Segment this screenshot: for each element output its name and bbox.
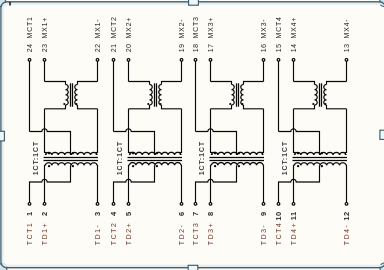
wire T1 secondary centre tap over hop to pin 1 TCT1 (30, 165, 71, 202)
svg-text:MCT4: MCT4 (276, 16, 283, 38)
svg-text:TD4+: TD4+ (291, 222, 298, 245)
transformer T2 secondary polarity dots (132, 165, 158, 167)
choke CM4 right winding polarity dot (324, 103, 326, 105)
label pin 7 TCT3 (191, 211, 200, 245)
svg-text:14: 14 (291, 44, 298, 53)
pin 2 TD1+ (bottom) (43, 203, 46, 206)
transformer T1 core (44, 158, 99, 161)
svg-text:8: 8 (206, 211, 215, 216)
transformer T4 core (293, 158, 348, 161)
svg-text:23: 23 (42, 44, 49, 53)
svg-text:MX2+: MX2+ (126, 17, 133, 39)
common-mode choke CM2 right winding (from MX2-) (159, 82, 182, 109)
svg-text:13: 13 (344, 44, 351, 53)
svg-text:7: 7 (191, 211, 200, 216)
svg-text:MX1-: MX1- (95, 19, 102, 39)
selection handle bottom edge (188, 265, 198, 270)
svg-text:19: 19 (179, 44, 186, 53)
svg-text:1CT:1CT: 1CT:1CT (33, 141, 40, 175)
transformer T3 core (210, 158, 265, 161)
wire choke CM3 right to transformer T3 primary right (262, 109, 263, 155)
wire T1 secondary right to pin 3 TD1- (96, 165, 99, 202)
pin 20 MX2+ (top) (127, 59, 130, 82)
wire T4 secondary centre tap over hop to pin 10 TCT4 (279, 165, 320, 202)
pin 12 TD4- (bottom) (345, 203, 348, 206)
svg-text:TD3-: TD3- (261, 224, 268, 246)
common-mode choke CM2 left winding (from MX2+) (129, 82, 153, 109)
transformer T1 secondary polarity dots (48, 165, 74, 167)
transformer T1 secondary winding (1CT:1CT bottom) (45, 163, 97, 166)
pin 3 TD1- (bottom) (96, 203, 99, 206)
svg-text:TD1-: TD1- (95, 224, 102, 246)
svg-text:TCT1: TCT1 (27, 222, 34, 246)
wire T3 secondary right to pin 9 TD3- (262, 165, 265, 202)
svg-text:1CT:1CT: 1CT:1CT (199, 141, 206, 175)
label pin 17 MX3+ (208, 17, 215, 52)
svg-text:10: 10 (274, 211, 283, 220)
pin 8 TD3+ (bottom) (209, 203, 212, 206)
common-mode choke CM4 left winding (from MX4+) (294, 82, 318, 109)
selection frame corner handle bottom-left (0, 264, 7, 270)
pin 7 TCT3 (bottom, centre tap) (194, 203, 197, 206)
svg-text:4: 4 (109, 211, 118, 216)
transformer T4 primary winding (1CT:1CT top) (294, 152, 346, 155)
pin 16 MX3- (top) (262, 59, 265, 82)
label pin 19 MX2- (179, 19, 186, 53)
label pin 15 MCT4 (276, 16, 283, 52)
choke CM3 core (237, 83, 239, 106)
choke CM1 left winding polarity dot (63, 103, 65, 105)
pin 23 MX1+ (top) (43, 59, 46, 82)
pin 10 TCT4 (bottom, centre tap) (277, 203, 280, 206)
svg-text:MX3-: MX3- (261, 19, 268, 39)
pin 21 MCT2 (top, centre-tap column) (112, 59, 115, 132)
label pin 14 MX4+ (291, 17, 298, 52)
common-mode choke CM1 left winding (from MX1+) (45, 82, 69, 109)
selection frame corner handle top-right (380, 0, 384, 7)
selection handle left edge (0, 131, 4, 141)
label pin 3 TD1- (93, 211, 102, 245)
wire MCT1 centre tap: pin 24 down, over hop to T1 primary centre (30, 129, 71, 155)
choke CM4 core (320, 83, 322, 106)
label pin 1 TCT1 (25, 211, 34, 245)
wire choke CM1 right to transformer T1 primary right (96, 109, 97, 155)
svg-text:1CT:1CT: 1CT:1CT (282, 141, 289, 175)
label pin 20 MX2+ (126, 17, 133, 52)
label pin 4 TCT2 (109, 211, 118, 245)
wire MCT2 centre tap: pin 21 down, over hop to T2 primary centre (114, 129, 155, 155)
svg-text:3: 3 (93, 211, 102, 216)
svg-text:MX4-: MX4- (344, 19, 351, 39)
wire choke CM2 left to transformer T2 primary left (129, 109, 131, 155)
svg-text:21: 21 (111, 44, 118, 53)
svg-text:TD2+: TD2+ (126, 222, 133, 245)
label pin 21 MCT2 (111, 16, 118, 52)
transformer T1 primary polarity dots (48, 152, 74, 154)
svg-text:MX2-: MX2- (179, 19, 186, 39)
transformer T3 primary polarity dots (214, 152, 240, 154)
label pin 11 TD4+ (289, 211, 298, 245)
common-mode choke CM4 right winding (from MX4-) (324, 82, 347, 109)
label pin 10 TCT4 (274, 211, 283, 245)
wire T2 secondary right to pin 6 TD2- (180, 165, 183, 202)
choke CM3 right winding polarity dot (241, 103, 243, 105)
pin 15 MCT4 (top, centre-tap column) (277, 59, 280, 132)
svg-text:1CT:1CT: 1CT:1CT (117, 141, 124, 175)
svg-text:MX3+: MX3+ (208, 17, 215, 39)
choke CM2 core (155, 83, 157, 106)
wire T4 secondary left to pin 11 TD4+ (293, 165, 296, 202)
common-mode choke CM1 right winding (from MX1-) (75, 82, 98, 109)
transformer T1 primary winding (1CT:1CT top) (45, 152, 97, 155)
transformer T2 core (128, 158, 183, 161)
label pin 18 MCT3 (193, 16, 200, 52)
pin 13 MX4- (top) (345, 59, 348, 82)
svg-text:18: 18 (193, 44, 200, 53)
pin 24 MCT1 (top, centre-tap column) (28, 59, 31, 132)
choke CM3 left winding polarity dot (229, 103, 231, 105)
svg-text:1: 1 (25, 211, 34, 216)
selection handle top edge (189, 0, 199, 5)
common-mode choke CM3 left winding (from MX3+) (211, 82, 235, 109)
selection frame corner handle bottom-right (380, 263, 384, 270)
choke CM2 left winding polarity dot (147, 103, 149, 105)
svg-text:12: 12 (342, 211, 351, 220)
transformer T4 secondary polarity dots (297, 165, 323, 167)
svg-text:2: 2 (40, 211, 49, 216)
common-mode choke CM3 right winding (from MX3-) (241, 82, 264, 109)
svg-text:TCT3: TCT3 (193, 222, 200, 246)
pin 9 TD3- (bottom) (262, 203, 265, 206)
transformer T2 primary winding (1CT:1CT top) (129, 152, 181, 155)
label pin 9 TD3- (259, 211, 268, 245)
pin 4 TCT2 (bottom, centre tap) (112, 203, 115, 206)
svg-text:MCT1: MCT1 (27, 16, 34, 38)
svg-text:MX1+: MX1+ (42, 17, 49, 39)
choke CM2 right winding polarity dot (159, 103, 161, 105)
svg-text:16: 16 (261, 44, 268, 53)
wire T4 secondary right to pin 12 TD4- (345, 165, 348, 202)
label pin 5 TD2+ (124, 211, 133, 245)
wire T1 secondary left to pin 2 TD1+ (44, 165, 47, 202)
svg-text:MCT2: MCT2 (111, 16, 118, 38)
svg-text:TD2-: TD2- (179, 224, 186, 246)
svg-text:TD1+: TD1+ (42, 222, 49, 245)
transformer T4 secondary winding (1CT:1CT bottom) (294, 163, 346, 166)
svg-text:22: 22 (95, 44, 102, 53)
svg-text:TD3+: TD3+ (208, 222, 215, 245)
label pin 22 MX1- (95, 19, 102, 53)
svg-text:17: 17 (208, 44, 215, 53)
svg-text:TCT4: TCT4 (276, 222, 283, 246)
svg-text:6: 6 (177, 211, 186, 216)
wire T2 secondary left to pin 5 TD2+ (128, 165, 131, 202)
svg-text:MX4+: MX4+ (291, 17, 298, 39)
transformer T2 secondary winding (1CT:1CT bottom) (129, 163, 181, 166)
choke CM1 core (71, 83, 73, 106)
label pin 8 TD3+ (206, 211, 215, 245)
wire choke CM4 left to transformer T4 primary left (294, 109, 296, 155)
pin 11 TD4+ (bottom) (292, 203, 295, 206)
svg-text:TD4-: TD4- (344, 224, 351, 246)
wire choke CM2 right to transformer T2 primary right (180, 109, 181, 155)
label pin 13 MX4- (344, 19, 351, 53)
pin 6 TD2- (bottom) (180, 203, 183, 206)
svg-text:11: 11 (289, 211, 298, 220)
pin 1 TCT1 (bottom, centre tap) (28, 203, 31, 206)
label pin 12 TD4- (342, 211, 351, 245)
svg-text:24: 24 (27, 44, 34, 53)
wire MCT3 centre tap: pin 18 down, over hop to T3 primary centre (196, 129, 237, 155)
label pin 6 TD2- (177, 211, 186, 245)
svg-text:MCT3: MCT3 (193, 16, 200, 38)
pin 17 MX3+ (top) (209, 59, 212, 82)
wire T3 secondary centre tap over hop to pin 7 TCT3 (196, 165, 237, 202)
wire T2 secondary centre tap over hop to pin 4 TCT2 (114, 165, 155, 202)
transformer T3 primary winding (1CT:1CT top) (211, 152, 263, 155)
wire choke CM4 right to transformer T4 primary right (345, 109, 346, 155)
wire choke CM1 left to transformer T1 primary left (45, 109, 47, 155)
selection handle right edge (380, 130, 384, 139)
svg-text:15: 15 (276, 44, 283, 53)
label pin 2 TD1+ (40, 211, 49, 245)
svg-text:TCT2: TCT2 (111, 222, 118, 246)
svg-text:5: 5 (124, 211, 133, 216)
wire T3 secondary left to pin 8 TD3+ (210, 165, 213, 202)
wire MCT4 centre tap: pin 15 down, over hop to T4 primary centre (279, 129, 320, 155)
svg-text:9: 9 (259, 211, 268, 216)
selection frame corner handle top-left (0, 0, 6, 7)
choke CM4 left winding polarity dot (312, 103, 314, 105)
pin 22 MX1- (top) (96, 59, 99, 82)
transformer T3 secondary polarity dots (214, 165, 240, 167)
cursor tick mark top-left (9, 2, 11, 6)
transformer T2 primary polarity dots (132, 152, 158, 154)
label pin 16 MX3- (261, 19, 268, 53)
label pin 24 MCT1 (27, 16, 34, 52)
svg-text:20: 20 (126, 44, 133, 53)
pin 5 TD2+ (bottom) (127, 203, 130, 206)
wire choke CM3 left to transformer T3 primary left (211, 109, 213, 155)
label pin 23 MX1+ (42, 17, 49, 52)
pin 14 MX4+ (top) (292, 59, 295, 82)
transformer T3 secondary winding (1CT:1CT bottom) (211, 163, 263, 166)
pin 19 MX2- (top) (180, 59, 183, 82)
pin 18 MCT3 (top, centre-tap column) (194, 59, 197, 132)
choke CM1 right winding polarity dot (75, 103, 77, 105)
transformer T4 primary polarity dots (297, 152, 323, 154)
